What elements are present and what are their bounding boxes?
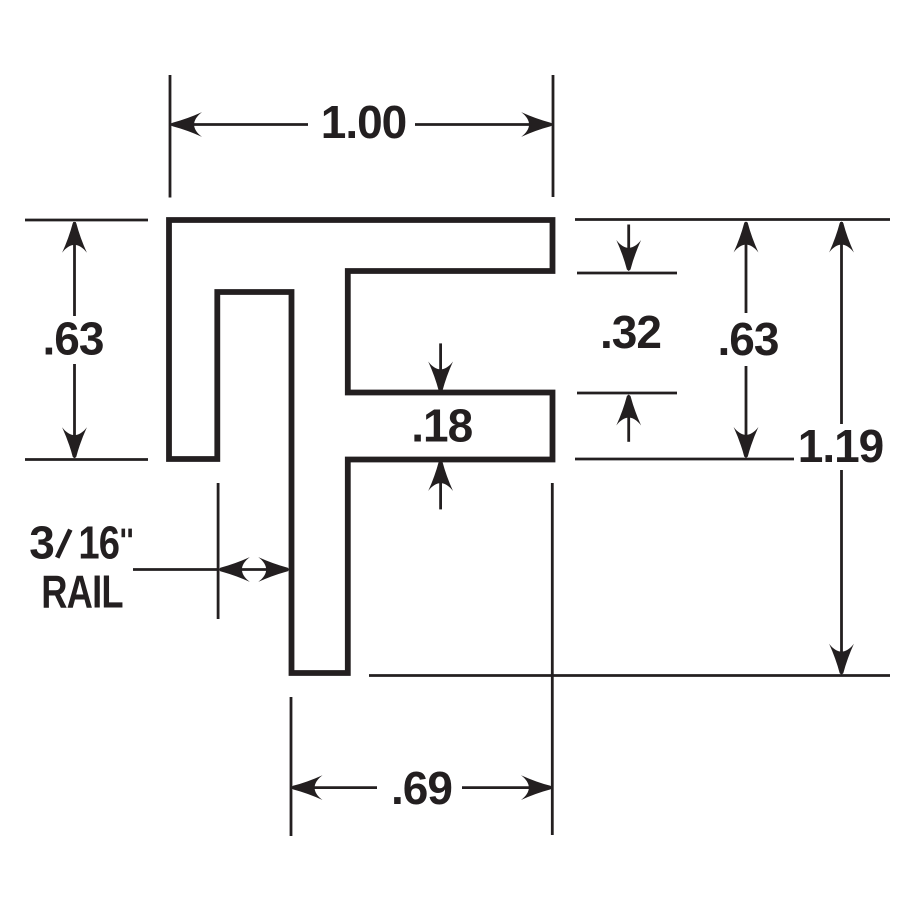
svg-text:.32: .32 — [600, 306, 661, 358]
dimension line 1.00 left segment — [171, 123, 308, 126]
arrowhead .69 left — [292, 775, 323, 800]
arrowhead .32 up — [616, 395, 641, 426]
arrowhead rail left — [219, 557, 250, 582]
extension line .32 top — [577, 272, 677, 275]
dimension line 1.00 right segment — [415, 123, 552, 126]
extension line .69 left vertical — [290, 697, 293, 836]
extension line left .63 bottom — [25, 458, 148, 461]
dimension line .63 right upper segment — [745, 222, 748, 313]
svg-text:.69: .69 — [391, 762, 452, 814]
extension line top-right vertical — [552, 75, 555, 197]
svg-text:3: 3 — [29, 517, 54, 569]
dimension line .63 left lower segment — [73, 364, 76, 458]
arrowhead rail right — [258, 557, 289, 582]
extension line left .63 top — [25, 219, 148, 222]
arrowhead .63 left up — [62, 222, 87, 253]
rail leader line — [133, 568, 218, 571]
svg-text:.63: .63 — [43, 313, 104, 365]
arrowhead 1.00 right — [521, 112, 552, 137]
dimension line .63 right lower segment — [745, 366, 748, 457]
extension line .63 right bottom — [575, 458, 794, 461]
dimension line .69 left segment — [292, 786, 377, 789]
extension line 1.19 bottom long — [369, 674, 890, 677]
svg-text:16: 16 — [78, 517, 119, 568]
dimension shaft .18 lower — [439, 462, 442, 509]
svg-text:RAIL: RAIL — [41, 565, 123, 617]
svg-text:1.00: 1.00 — [321, 96, 407, 148]
arrowhead .32 down — [616, 240, 641, 271]
arrowhead 1.19 up — [829, 222, 854, 253]
dimension line .69 right segment — [462, 786, 551, 789]
arrowhead .63 right down — [734, 427, 759, 458]
extension line top-left vertical — [169, 75, 172, 198]
extension line .69 right vertical — [551, 483, 554, 835]
extrusion profile outline — [169, 220, 553, 673]
dimension shaft .32 lower — [627, 398, 630, 442]
arrowhead .63 left down — [62, 427, 87, 458]
dimension line .63 left upper segment — [73, 222, 76, 316]
dimension shaft .18 upper — [439, 343, 442, 389]
svg-text:.63: .63 — [718, 313, 779, 365]
dimension line 1.19 upper segment — [840, 222, 843, 424]
svg-text:1.19: 1.19 — [798, 420, 884, 472]
extension line right top long — [575, 218, 890, 221]
arrowhead 1.19 down — [829, 644, 854, 675]
rail extension line vertical — [217, 483, 220, 619]
arrowhead .63 right up — [734, 222, 759, 253]
slash of 3/16 label — [57, 530, 70, 558]
arrowhead .69 right — [521, 775, 552, 800]
dimension shaft .32 upper — [627, 225, 630, 268]
dimension line 1.19 lower segment — [840, 470, 843, 673]
inch quote marks — [123, 529, 130, 538]
rail double-arrow shaft — [220, 568, 288, 571]
arrowhead .18 up — [428, 460, 453, 491]
arrowhead 1.00 left — [171, 112, 202, 137]
arrowhead .18 down — [428, 362, 453, 393]
extension line .32 bottom — [577, 392, 677, 395]
svg-text:.18: .18 — [411, 400, 472, 452]
